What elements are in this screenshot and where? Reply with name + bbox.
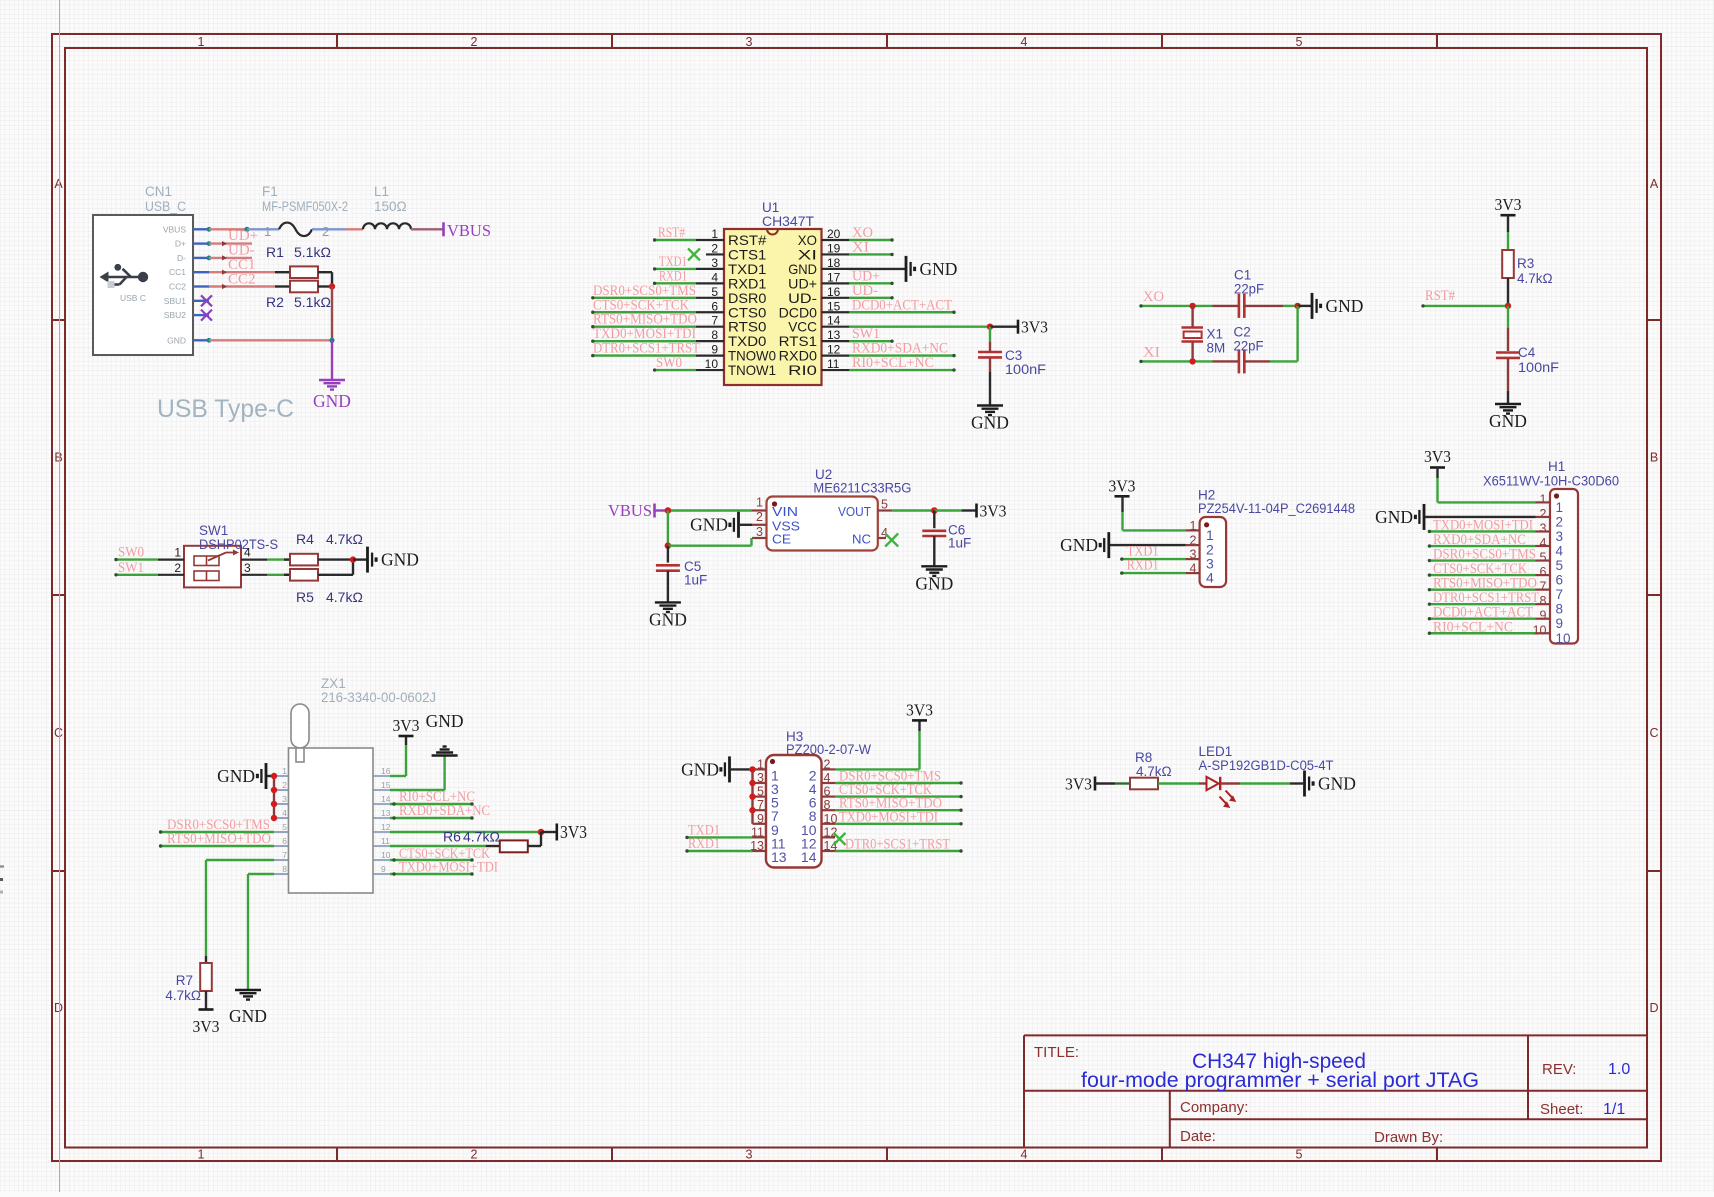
svg-text:11: 11 <box>381 836 390 846</box>
wire SW0 <box>116 558 158 560</box>
svg-text:3: 3 <box>282 794 287 804</box>
svg-text:R5: R5 <box>296 589 314 605</box>
svg-text:XI: XI <box>1143 344 1160 360</box>
wire TXD0+MOSI+TDI zx <box>390 873 472 875</box>
ground U2 VSS <box>690 512 752 538</box>
svg-text:2: 2 <box>1190 534 1197 548</box>
junction CE <box>665 542 672 549</box>
svg-text:5: 5 <box>711 285 718 299</box>
wire ZX1 pin8 to GND <box>248 874 274 990</box>
svg-text:20: 20 <box>827 227 841 241</box>
svg-text:3: 3 <box>1540 521 1547 535</box>
wire down to C6 <box>933 511 935 529</box>
resistor R1 <box>266 244 332 278</box>
svg-text:X1: X1 <box>1207 327 1224 342</box>
svg-text:7: 7 <box>757 798 764 812</box>
svg-text:9: 9 <box>1556 616 1564 631</box>
svg-text:8: 8 <box>711 328 718 342</box>
wire H1 RTS0+MISO+TDO <box>1429 588 1535 590</box>
svg-text:Company:: Company: <box>1180 1099 1248 1116</box>
resistor R8 <box>1130 750 1172 789</box>
H2 pins <box>1186 519 1214 586</box>
svg-text:VBUS: VBUS <box>608 501 652 520</box>
wire SW1 pin4 to R4 <box>267 558 290 560</box>
svg-text:2: 2 <box>174 561 181 575</box>
svg-text:RTS0+MISO+TDO: RTS0+MISO+TDO <box>167 831 271 847</box>
wire XI <box>1141 360 1213 362</box>
ground ZX1 pin1 <box>217 763 274 789</box>
svg-text:16: 16 <box>381 766 391 776</box>
wire H3 TXD0+MOSI+TDI <box>835 823 961 825</box>
ground ZX1 pin15 <box>426 711 464 756</box>
svg-text:GND: GND <box>920 259 958 279</box>
svg-text:VBUS: VBUS <box>163 224 186 234</box>
svg-text:1: 1 <box>1206 527 1214 543</box>
svg-text:GND: GND <box>1326 296 1364 316</box>
resistor R5 <box>284 569 363 605</box>
svg-text:LED1: LED1 <box>1199 744 1233 759</box>
svg-text:U1: U1 <box>762 200 779 215</box>
svg-text:9: 9 <box>1540 609 1547 623</box>
crystal X1 <box>1182 306 1226 362</box>
svg-text:6: 6 <box>824 785 831 799</box>
svg-text:CC2: CC2 <box>228 271 256 287</box>
svg-text:1uF: 1uF <box>684 573 707 588</box>
wire GND horizontal <box>209 339 332 341</box>
wire R7 to 3V3 <box>205 991 207 1009</box>
wire R1 down to junction <box>331 272 333 286</box>
svg-text:2: 2 <box>471 1148 478 1162</box>
wire RST# <box>655 239 696 241</box>
power flag 3V3 at ZX1 pin16 <box>393 716 420 736</box>
connector ZX1 216-3340-00-0602J body <box>289 676 437 893</box>
capacitor C1 <box>1213 268 1284 318</box>
SW1 pins <box>158 546 267 575</box>
wire ZX1 pin16 to 3V3 <box>390 737 406 777</box>
wire C6 to GND <box>933 536 935 566</box>
svg-text:4: 4 <box>1206 570 1214 586</box>
svg-text:11: 11 <box>827 357 840 371</box>
no-connect U2 NC <box>885 534 898 547</box>
svg-text:L1: L1 <box>374 184 389 199</box>
svg-text:B: B <box>1650 451 1658 465</box>
svg-text:GND: GND <box>381 550 419 570</box>
wire DSR0+SCS0+TMS <box>593 297 696 299</box>
svg-text:1/1: 1/1 <box>1603 1101 1625 1118</box>
wire SW1 net <box>116 574 158 576</box>
svg-text:TXD0+MOSI+TDI: TXD0+MOSI+TDI <box>399 860 498 876</box>
frame column numbers <box>198 35 1303 1162</box>
fuse F1 <box>262 184 348 239</box>
capacitor C6 <box>922 523 971 551</box>
wire C2 to GND riser <box>1270 306 1298 362</box>
svg-text:RI0+SCL+NC: RI0+SCL+NC <box>852 355 934 371</box>
USB logo icon <box>100 264 149 303</box>
svg-text:RXD1: RXD1 <box>1127 558 1159 574</box>
svg-text:8: 8 <box>1540 594 1547 608</box>
svg-text:7: 7 <box>1540 580 1547 594</box>
svg-text:5: 5 <box>1296 35 1303 49</box>
svg-text:11: 11 <box>751 825 764 839</box>
screen artifacts left edge <box>0 867 4 893</box>
wire RST# to C4 <box>1507 306 1509 351</box>
svg-text:VIN: VIN <box>772 504 798 519</box>
wire VBUS to VIN <box>655 509 753 511</box>
power flag 3V3 at H1 <box>1424 447 1451 468</box>
junction VBUS <box>244 227 249 232</box>
svg-text:4.7kΩ: 4.7kΩ <box>1136 764 1172 779</box>
svg-text:3V3: 3V3 <box>560 822 587 842</box>
svg-text:3V3: 3V3 <box>1495 195 1522 214</box>
svg-text:13: 13 <box>381 808 391 818</box>
svg-text:2: 2 <box>471 35 478 49</box>
wire TXD0+MOSI+TDI <box>593 340 696 342</box>
wire 3V3 to H1 pin1 <box>1438 468 1536 503</box>
svg-text:4.7kΩ: 4.7kΩ <box>326 589 363 605</box>
connector H2 PZ254V-11-04P body <box>1198 488 1355 587</box>
wire H1 RXD0+SDA+NC <box>1429 545 1535 547</box>
junction RST# <box>1505 303 1511 309</box>
svg-text:4: 4 <box>1021 35 1028 49</box>
svg-text:1: 1 <box>1556 500 1564 515</box>
svg-text:SBU1: SBU1 <box>164 296 186 306</box>
svg-text:R1: R1 <box>266 244 284 260</box>
power flag 3V3 at U2 <box>977 502 1007 521</box>
svg-text:A: A <box>54 177 63 191</box>
resistor R6 <box>443 829 541 853</box>
svg-text:C: C <box>1649 726 1658 740</box>
ground GND purple <box>313 380 351 411</box>
wire down to C5 <box>667 546 669 563</box>
H1 pins <box>1533 492 1571 645</box>
svg-text:3V3: 3V3 <box>1424 447 1451 466</box>
wire H3 DSR0+SCS0+TMS <box>835 782 961 784</box>
resistor R2 <box>266 281 332 310</box>
wire CC1 <box>209 271 275 273</box>
svg-text:RST#: RST# <box>658 225 685 241</box>
svg-text:1: 1 <box>1190 519 1197 533</box>
svg-text:PZ200-2-07-W: PZ200-2-07-W <box>786 742 871 757</box>
svg-text:RXD0+SDA+NC: RXD0+SDA+NC <box>399 803 490 819</box>
node D+ pin dot <box>207 241 212 246</box>
svg-text:3V3: 3V3 <box>906 701 933 720</box>
ground H1 pin2 <box>1375 504 1535 530</box>
junction H3 pin5 <box>749 793 755 799</box>
svg-text:ME6211C33R5G: ME6211C33R5G <box>813 481 911 496</box>
no-connect SBU1 <box>201 295 212 306</box>
svg-text:3: 3 <box>757 771 764 785</box>
U2 pins <box>752 496 892 547</box>
svg-text:RXD1: RXD1 <box>688 836 720 852</box>
net CC1 <box>222 257 256 275</box>
wire DTR0+SCS1+TRST <box>593 354 696 356</box>
svg-text:4.7kΩ: 4.7kΩ <box>463 829 500 845</box>
svg-text:4: 4 <box>244 546 251 560</box>
svg-text:GND: GND <box>1318 774 1356 794</box>
ground LED1 <box>1305 771 1356 797</box>
svg-text:H1: H1 <box>1548 459 1565 474</box>
U1 pins left <box>696 227 776 378</box>
net UD- <box>222 243 255 261</box>
wire C1 to GND junction <box>1283 305 1298 307</box>
svg-text:D+: D+ <box>175 239 186 249</box>
wire RTS0+MISO+TDO zx <box>161 845 274 847</box>
svg-text:R7: R7 <box>176 973 193 988</box>
svg-text:13: 13 <box>771 849 787 865</box>
capacitor C2 <box>1213 325 1271 374</box>
svg-text:1: 1 <box>264 224 271 239</box>
power flag 3V3 at H2 <box>1109 477 1136 497</box>
ground H2 pin2 <box>1060 532 1186 558</box>
svg-text:3V3: 3V3 <box>1021 318 1048 337</box>
wire C4 to GND <box>1507 359 1509 405</box>
H3 pins left <box>750 757 787 865</box>
title block <box>1024 1035 1647 1147</box>
svg-text:4: 4 <box>1021 1148 1028 1162</box>
capacitor C4 <box>1496 345 1559 375</box>
svg-text:XO: XO <box>1143 289 1164 305</box>
wire RST# <box>1423 305 1508 307</box>
ground ZX1 pin8 <box>229 990 267 1026</box>
svg-text:four-mode programmer + serial: four-mode programmer + serial port JTAG <box>1081 1069 1479 1092</box>
svg-text:6: 6 <box>282 836 287 846</box>
wire H1 DCD0+ACT+ACT <box>1429 618 1535 620</box>
svg-text:22pF: 22pF <box>1234 339 1264 354</box>
svg-text:GND: GND <box>313 391 351 411</box>
svg-text:8M: 8M <box>1207 341 1226 356</box>
svg-text:18: 18 <box>827 256 841 270</box>
node VBUS pin dot <box>207 227 212 232</box>
wire R5 up to junction <box>352 560 354 575</box>
svg-text:DSHP02TS-S: DSHP02TS-S <box>199 537 278 552</box>
svg-text:6: 6 <box>1540 565 1547 579</box>
svg-text:14: 14 <box>801 849 817 865</box>
svg-text:R4: R4 <box>296 531 314 547</box>
wire RXD1 H2 <box>1120 571 1185 574</box>
ZX1 pins left <box>274 766 289 874</box>
svg-text:150Ω: 150Ω <box>374 199 407 214</box>
svg-text:C2: C2 <box>1234 325 1251 340</box>
connector H1 X6511WV-10H body <box>1483 459 1619 644</box>
svg-text:4.7kΩ: 4.7kΩ <box>1517 271 1553 286</box>
svg-text:10: 10 <box>705 357 719 371</box>
wire XI <box>849 253 892 255</box>
wire ZX1 pin7 to R7 <box>206 860 274 963</box>
junction R4 R5 <box>350 556 356 562</box>
ZX1 pins right <box>373 766 391 874</box>
wire XO <box>1141 305 1213 307</box>
wire RXD1 H3 <box>687 850 753 852</box>
wire 3V3 to R8 <box>1095 782 1130 784</box>
wire DCD0+ACT+ACT <box>849 311 954 313</box>
svg-text:10: 10 <box>1533 623 1547 637</box>
svg-text:5: 5 <box>1296 1148 1303 1162</box>
junction VCC <box>987 324 993 330</box>
svg-text:USB_C: USB_C <box>145 199 186 214</box>
svg-text:TITLE:: TITLE: <box>1034 1044 1079 1061</box>
wire ZX1 pin11 to R6 <box>390 845 486 847</box>
svg-text:A: A <box>1650 177 1659 191</box>
svg-text:9: 9 <box>757 812 764 826</box>
wire ZX1 pin12 to 3V3 <box>390 831 541 833</box>
svg-text:DCD0+ACT+ACT: DCD0+ACT+ACT <box>852 297 952 313</box>
wire H1 RI0+SCL+NC <box>1429 632 1535 634</box>
svg-text:4: 4 <box>1190 562 1197 576</box>
wire junction down to GND net <box>331 287 333 341</box>
svg-text:USB Type-C: USB Type-C <box>157 395 294 423</box>
svg-text:1: 1 <box>711 227 718 241</box>
wire 3V3 to H2 pin1 <box>1123 496 1186 530</box>
svg-text:F1: F1 <box>262 184 278 199</box>
wire VCC down to C3 <box>989 327 991 351</box>
U1 pins right <box>779 227 849 378</box>
H3 pins right <box>801 757 838 865</box>
svg-text:14: 14 <box>827 314 841 328</box>
wire down to GND symbol <box>331 340 333 380</box>
power flag 3V3 below R7 <box>193 1010 220 1037</box>
svg-text:DTR0+SCS1+TRST: DTR0+SCS1+TRST <box>845 837 950 853</box>
svg-text:GND: GND <box>217 766 255 786</box>
switch SW1 DSHP02TS-S <box>184 523 278 587</box>
wire TXD1 H3 <box>687 836 753 838</box>
svg-text:GND: GND <box>915 574 953 594</box>
svg-text:100nF: 100nF <box>1005 362 1046 377</box>
wire H1 DSR0+SCS0+TMS <box>1429 559 1535 561</box>
power flag 3V3 at R8 <box>1065 775 1095 794</box>
svg-text:NC: NC <box>852 532 871 547</box>
wire fuse to L1 <box>312 228 363 230</box>
svg-text:12: 12 <box>824 825 838 839</box>
CN1 pin lines <box>193 229 209 340</box>
svg-text:A-SP192GB1D-C05-4T: A-SP192GB1D-C05-4T <box>1199 758 1334 773</box>
svg-text:1uF: 1uF <box>948 536 971 551</box>
svg-text:6: 6 <box>1556 573 1564 588</box>
wire UD- <box>209 257 252 259</box>
junction VBUS VIN <box>665 507 672 514</box>
svg-text:1: 1 <box>198 1148 205 1162</box>
no-connect SBU2 <box>201 310 212 321</box>
svg-text:DTR0+SCS1+TRST: DTR0+SCS1+TRST <box>593 341 700 357</box>
svg-text:3V3: 3V3 <box>1109 477 1136 496</box>
svg-text:SW1: SW1 <box>118 560 144 576</box>
svg-text:TNOW1: TNOW1 <box>728 362 776 378</box>
no-connect H3 pin12 <box>834 833 846 845</box>
svg-text:D: D <box>1649 1001 1658 1015</box>
svg-text:3: 3 <box>1556 529 1564 544</box>
junction ZX1 pin1 <box>271 773 277 779</box>
svg-text:7: 7 <box>282 850 287 860</box>
svg-text:X6511WV-10H-C30D60: X6511WV-10H-C30D60 <box>1483 474 1619 489</box>
wire UD+ <box>209 242 252 244</box>
wire junction to 3V3 flag <box>541 831 556 833</box>
power flag 3V3 at U1 <box>1018 318 1048 337</box>
svg-text:XI: XI <box>852 239 869 255</box>
svg-text:2: 2 <box>1540 507 1547 521</box>
svg-text:5: 5 <box>282 822 287 832</box>
wire TXD1 <box>655 268 696 270</box>
ground H3 pin1 <box>681 756 752 782</box>
wire 3V3 to R3 <box>1507 215 1509 250</box>
svg-text:1: 1 <box>1540 492 1547 506</box>
svg-text:CE: CE <box>772 532 791 547</box>
junction XI <box>1189 358 1195 364</box>
svg-text:1: 1 <box>198 35 205 49</box>
canvas edge hairline <box>59 0 61 1192</box>
svg-text:CC1: CC1 <box>169 267 186 277</box>
svg-text:B: B <box>54 451 62 465</box>
svg-text:C4: C4 <box>1518 345 1536 360</box>
power flag 3V3 at R6 <box>557 822 587 842</box>
svg-text:CC2: CC2 <box>169 282 186 292</box>
wire junction to GND <box>353 558 367 560</box>
svg-text:9: 9 <box>381 864 386 874</box>
svg-text:4: 4 <box>711 270 718 284</box>
capacitor C3 <box>978 348 1046 377</box>
junction H3 pin7 <box>749 807 755 813</box>
wire H3 CTS0+SCK+TCK <box>835 795 961 797</box>
wire RI0+SCL+NC <box>849 369 954 371</box>
ground U1 pin18 <box>906 256 957 282</box>
ground crystal <box>1312 293 1363 319</box>
wire H1 DTR0+SCS1+TRST <box>1429 603 1535 605</box>
svg-text:SW0: SW0 <box>656 355 682 371</box>
svg-text:SW1: SW1 <box>199 523 228 538</box>
svg-text:3: 3 <box>746 35 753 49</box>
svg-text:10: 10 <box>1556 631 1571 646</box>
svg-text:100nF: 100nF <box>1518 360 1559 375</box>
svg-text:3V3: 3V3 <box>193 1017 220 1036</box>
wire VOUT to 3V3 <box>892 509 934 511</box>
wire to GND symbol <box>1298 305 1311 307</box>
svg-text:4: 4 <box>282 808 287 818</box>
svg-text:GND: GND <box>1489 411 1527 431</box>
power flag VBUS <box>444 221 492 240</box>
svg-text:3V3: 3V3 <box>980 502 1007 521</box>
svg-text:2: 2 <box>282 780 287 790</box>
junction R6 3V3 <box>538 829 545 836</box>
svg-text:USB C: USB C <box>120 293 146 303</box>
LED LED1 <box>1199 744 1334 808</box>
junction GND <box>329 338 334 343</box>
svg-text:9: 9 <box>711 343 718 357</box>
junction CC2 <box>329 283 335 289</box>
wire H3 RTS0+MISO+TDO <box>835 809 961 811</box>
wire C3 to GND <box>989 358 991 406</box>
svg-text:2: 2 <box>756 510 763 524</box>
svg-text:GND: GND <box>1375 507 1413 527</box>
svg-text:1: 1 <box>282 766 287 776</box>
svg-text:4: 4 <box>1540 536 1547 550</box>
svg-text:8: 8 <box>824 798 831 812</box>
capacitor C5 <box>656 559 707 588</box>
inductor L1 <box>363 184 411 229</box>
svg-text:1: 1 <box>756 496 763 510</box>
svg-text:5.1kΩ: 5.1kΩ <box>294 244 331 260</box>
wire RXD1 <box>655 282 696 284</box>
svg-text:22pF: 22pF <box>1234 282 1264 297</box>
wire VCC 3V3 <box>849 326 990 328</box>
svg-text:5: 5 <box>757 785 764 799</box>
junction H3 pin1 <box>749 766 755 772</box>
wire DSR0+SCS0+TMS zx <box>161 831 274 833</box>
svg-text:R2: R2 <box>266 294 284 310</box>
svg-text:RST#: RST# <box>1425 288 1455 304</box>
power flag 3V3 at R3 <box>1495 195 1522 215</box>
wire VIN down to CE <box>667 511 669 546</box>
wire U1 GND <box>849 268 906 270</box>
svg-text:5: 5 <box>1556 558 1564 573</box>
svg-text:3: 3 <box>756 525 763 539</box>
